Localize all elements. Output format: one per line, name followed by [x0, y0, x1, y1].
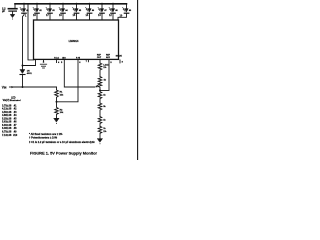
LED D6 [86, 3, 96, 13]
wire pot bottom to pin 8 REF ADJ [100, 60, 109, 91]
svg-text:1%: 1% [103, 131, 106, 133]
notes [29, 133, 95, 144]
wire VIN arrow [9, 86, 13, 88]
svg-text:7.13±.08: 7.13±.08 [2, 134, 12, 137]
wire LED D2 cathode to pin 18 [36, 14, 38, 21]
svg-text:4001: 4001 [27, 72, 33, 75]
svg-text:† Potentiometers ± 10%: † Potentiometers ± 10% [29, 137, 58, 140]
wire LED D8 cathode to pin 12 [112, 14, 114, 21]
node divider tap dot [56, 101, 58, 103]
LED D7 [98, 3, 108, 13]
svg-text:* All fixed resistors are ± 1%: * All fixed resistors are ± 1% [29, 133, 63, 136]
pin 4 stub [56, 60, 58, 63]
wire V+ top bus [15, 3, 127, 5]
wiper arrowhead into pot [96, 85, 99, 88]
table rows [2, 104, 18, 136]
node pin2 dot [43, 61, 45, 63]
svg-text:VIN(V): VIN(V) [3, 99, 10, 102]
pin 2 stub [43, 60, 45, 62]
resistor R8 [98, 126, 102, 138]
svg-text:ADJ: ADJ [106, 56, 110, 59]
ground (below C1) [10, 14, 14, 19]
wire V+ bus to IC pin 3 [28, 4, 34, 60]
svg-text:VIN: VIN [2, 85, 7, 89]
LED D4 [59, 3, 69, 13]
wire LED D1 cathode down left side [23, 14, 25, 66]
resistor R1 [55, 90, 59, 102]
svg-text:R HI: R HI [76, 58, 80, 60]
wire VIN horizontal [14, 86, 57, 88]
LED D1 [20, 3, 30, 13]
node VIN junction [22, 86, 24, 88]
wire LED D3 cathode to pin 17 [49, 14, 51, 21]
resistor R7 [98, 117, 102, 127]
svg-text:SIG: SIG [62, 58, 66, 60]
ground (right chain, arrow style) [97, 139, 102, 145]
svg-text:#10: #10 [13, 134, 18, 137]
svg-text:Illuminated: Illuminated [10, 99, 21, 102]
diode D10 input [20, 66, 25, 88]
page column rule (right edge) [137, 0, 139, 160]
wire LED D6 cathode to pin 14 [89, 14, 91, 21]
LED D9 [123, 4, 133, 13]
wire node to IC pin 1 [23, 60, 36, 66]
node pot bottom dot [99, 89, 101, 91]
ground (pin 2, bar style) [40, 64, 46, 68]
LED D2 [33, 3, 43, 13]
wire LED D9 cathode to pin 10 [118, 14, 127, 21]
left divider chain: wire from VIN line down [56, 87, 58, 90]
LED D5 [73, 3, 83, 13]
ground (left divider, arrow style) [54, 118, 59, 124]
pin 9 MODE stub [119, 60, 121, 63]
resistor R6 [98, 103, 102, 117]
resistor R5 [98, 90, 102, 103]
svg-text:R LO: R LO [54, 58, 59, 60]
node pin1 junction [22, 65, 24, 67]
svg-text:LM3914: LM3914 [69, 39, 79, 43]
IC U1 LM3914 [34, 20, 119, 59]
resistor R2 [55, 102, 59, 119]
potentiometer R4 [98, 77, 102, 91]
LED D3 [46, 3, 56, 13]
svg-text:MODE: MODE [116, 56, 123, 58]
wire pin 6 to divider tap [58, 60, 79, 102]
wire LED D4 cathode to pin 16 [62, 14, 64, 21]
svg-text:1%: 1% [103, 67, 106, 69]
svg-text:FIGURE 1. 5V Power Supply Moni: FIGURE 1. 5V Power Supply Monitor [30, 150, 97, 155]
capacitor C1 [8, 4, 17, 15]
pin 7 stub (R HI) [87, 60, 89, 62]
wire LED D5 cathode to pin 15 [76, 14, 78, 21]
wire LED D7 cathode to pin 13 [101, 14, 103, 21]
svg-text:‡ C1 is 2.2 µF tantalum or a 1: ‡ C1 is 2.2 µF tantalum or a 10 µF alumi… [29, 141, 95, 144]
svg-text:µF: µF [2, 9, 5, 13]
pin 7 REF OUT chain stub [99, 60, 101, 63]
resistor R3 [98, 63, 102, 77]
wire pin 5 to wiper line [64, 60, 95, 87]
LED D8 [109, 3, 119, 13]
